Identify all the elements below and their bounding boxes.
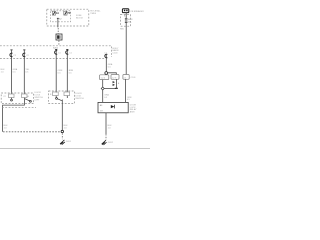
svg-text:RED: RED xyxy=(120,28,125,30)
ground G202 xyxy=(102,140,107,145)
wire from connector down xyxy=(105,61,107,72)
svg-text:BLOCK: BLOCK xyxy=(76,17,84,19)
wire down from fuse block xyxy=(57,18,59,27)
long wire down right side xyxy=(125,23,127,75)
right box pin 1 xyxy=(50,92,58,99)
left box pin 1 xyxy=(3,94,14,101)
svg-text:C101: C101 xyxy=(131,77,137,79)
connector row box 3 xyxy=(123,75,129,80)
left switch dashed box xyxy=(1,93,33,104)
wire 3 xyxy=(55,49,62,92)
stub below box2 xyxy=(113,79,120,88)
bottom border line xyxy=(0,148,150,150)
fuse F1 xyxy=(52,11,59,15)
dashed below splice xyxy=(61,133,63,139)
connector row box 1 xyxy=(100,75,109,80)
svg-text:C100: C100 xyxy=(113,52,119,54)
ground G201 xyxy=(60,140,65,145)
right box pin 2 xyxy=(64,92,70,98)
fuse block inner dashed box xyxy=(51,11,71,22)
wire 2 xyxy=(23,50,30,94)
outer dashed segment below left box xyxy=(2,107,36,109)
right switch dashed box xyxy=(49,91,75,104)
connector row box 2 xyxy=(111,75,119,80)
svg-text:1A: 1A xyxy=(56,12,59,15)
left box switch lever xyxy=(25,99,30,101)
svg-text:CB BREAKER: CB BREAKER xyxy=(130,10,144,13)
wire below box1 xyxy=(102,80,104,103)
dashed wire from left to splice xyxy=(3,131,61,133)
left box output L wire xyxy=(3,99,25,132)
svg-text:7D: 7D xyxy=(67,12,70,15)
top-right dashed box xyxy=(121,15,131,27)
svg-text:G202: G202 xyxy=(108,142,114,144)
wire relay to fuse xyxy=(125,13,127,19)
branch from diamond to box2 stub xyxy=(104,88,116,90)
branch to box2 xyxy=(108,73,117,75)
fuse F2 xyxy=(64,11,71,15)
solid module box xyxy=(98,102,128,112)
wire below box3 xyxy=(125,79,127,102)
relay / breaker top right xyxy=(122,9,128,13)
splice circle xyxy=(105,72,108,75)
boundary dashed line B xyxy=(0,58,105,60)
branch to box1 xyxy=(105,73,107,76)
connector box C100 xyxy=(56,34,62,40)
boundary dashed line A with corner xyxy=(0,46,112,57)
wire 4 xyxy=(66,49,73,92)
left box pin 2 xyxy=(22,94,30,99)
fuse block outer dashed box xyxy=(47,9,89,26)
output wire below module xyxy=(105,113,107,134)
splice circle G xyxy=(61,130,63,132)
svg-text:SWITCH: SWITCH xyxy=(75,98,84,100)
right box switch lever xyxy=(57,99,62,101)
svg-text:LEFT: LEFT xyxy=(35,99,41,101)
connector pin symbol mid xyxy=(104,53,107,61)
inline connector diamond xyxy=(101,87,104,90)
dashed wire segment to connector xyxy=(57,28,59,34)
wire from fuse block: tick xyxy=(57,17,59,19)
svg-text:TIMES: TIMES xyxy=(90,13,97,15)
wire 1 xyxy=(10,50,17,94)
wire from right box down to splice xyxy=(61,100,63,131)
maxifuse element xyxy=(125,18,128,23)
dashed wire segment below connector xyxy=(58,41,60,46)
svg-text:G201: G201 xyxy=(66,141,72,143)
svg-text:ASM: ASM xyxy=(130,111,135,114)
dashed to ground xyxy=(105,134,107,140)
